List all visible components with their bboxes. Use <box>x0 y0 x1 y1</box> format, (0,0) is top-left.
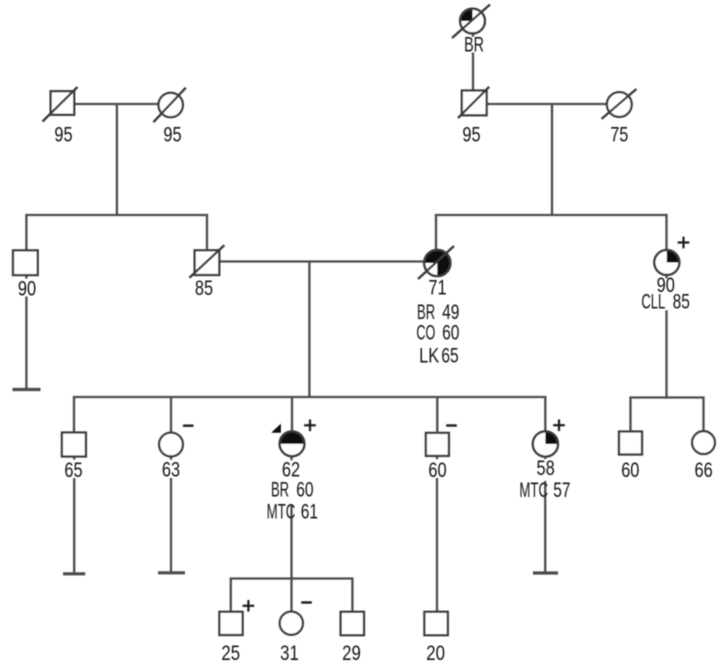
svg-text:25: 25 <box>221 642 240 665</box>
svg-text:71: 71 <box>428 276 446 299</box>
svg-text:95: 95 <box>163 123 181 146</box>
svg-text:BR: BR <box>271 477 289 501</box>
svg-text:75: 75 <box>610 123 628 146</box>
svg-text:20: 20 <box>426 642 445 665</box>
svg-text:CO: CO <box>416 320 435 344</box>
svg-text:85: 85 <box>195 276 213 299</box>
svg-text:95: 95 <box>462 123 480 146</box>
svg-text:MTC: MTC <box>267 499 296 523</box>
svg-text:65: 65 <box>64 458 82 481</box>
svg-text:63: 63 <box>162 458 180 481</box>
svg-text:60: 60 <box>442 320 459 344</box>
svg-text:85: 85 <box>673 289 690 313</box>
svg-text:95: 95 <box>54 123 72 146</box>
svg-text:LK: LK <box>419 344 439 367</box>
svg-text:60: 60 <box>296 477 313 501</box>
svg-text:MTC: MTC <box>519 478 548 502</box>
svg-text:31: 31 <box>280 642 299 665</box>
svg-text:BR: BR <box>464 33 484 56</box>
svg-text:29: 29 <box>342 642 361 665</box>
svg-text:90: 90 <box>18 277 36 300</box>
svg-text:61: 61 <box>301 499 318 523</box>
svg-text:60: 60 <box>621 458 639 481</box>
svg-text:66: 66 <box>694 458 712 481</box>
svg-text:65: 65 <box>441 343 458 367</box>
svg-text:60: 60 <box>428 458 446 481</box>
svg-text:57: 57 <box>553 478 570 502</box>
svg-text:58: 58 <box>536 456 554 479</box>
svg-text:CLL: CLL <box>641 289 665 313</box>
